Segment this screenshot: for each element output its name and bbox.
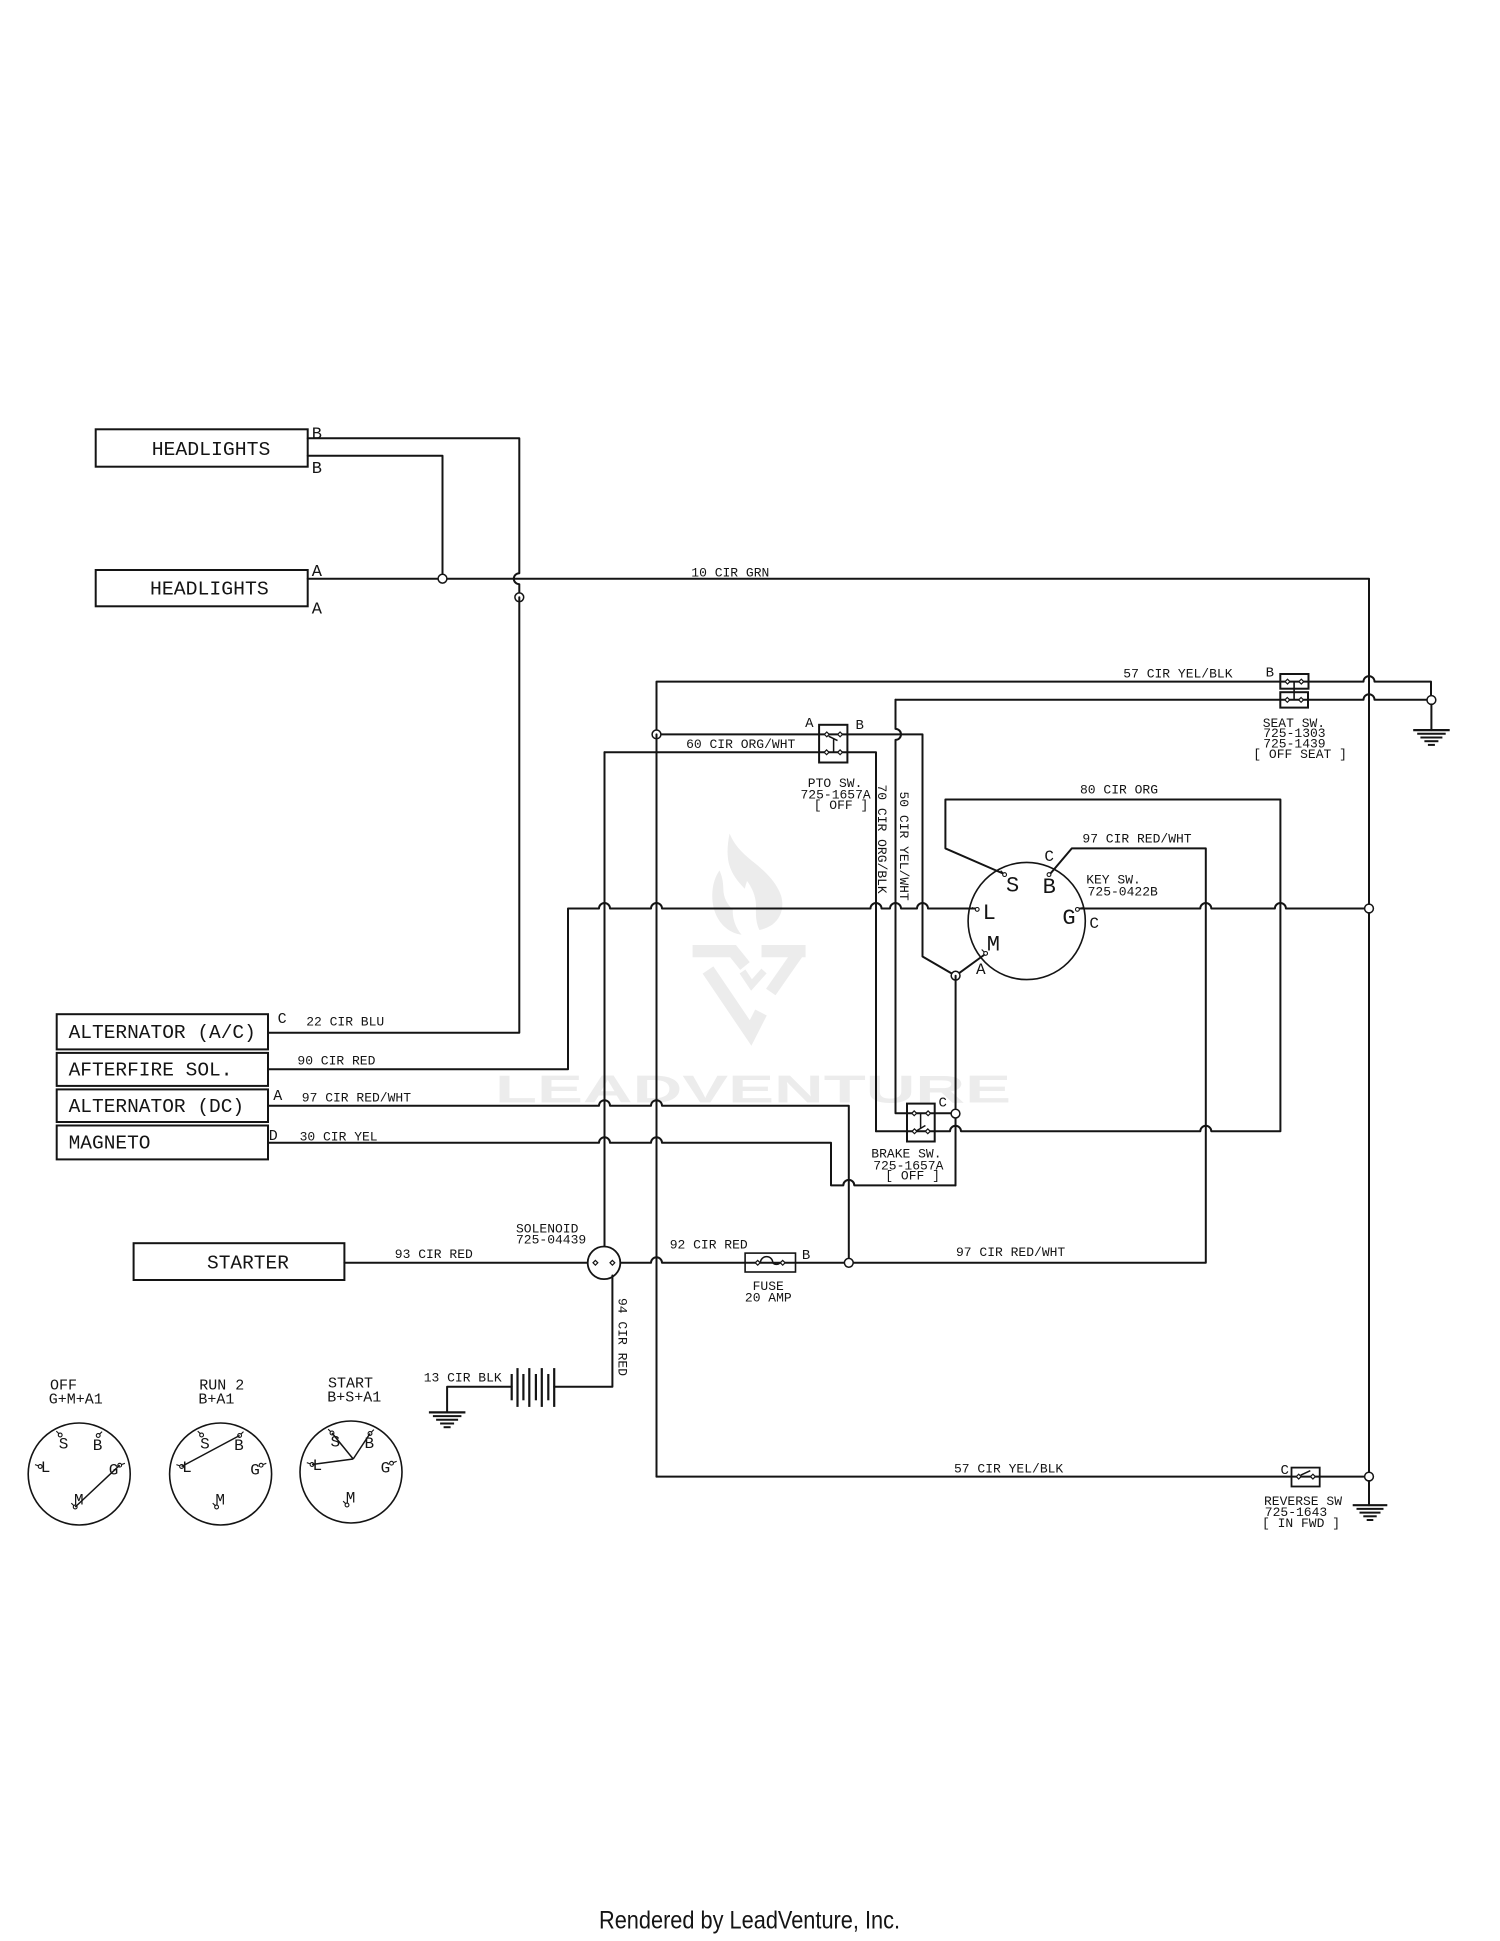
key switch label xyxy=(1086,873,1158,900)
svg-text:B: B xyxy=(312,460,322,479)
svg-text:[ OFF ]: [ OFF ] xyxy=(814,798,869,813)
svg-text:93 CIR RED: 93 CIR RED xyxy=(395,1247,473,1262)
key position diagram START xyxy=(300,1375,402,1523)
svg-text:B: B xyxy=(802,1248,810,1264)
svg-text:MAGNETO: MAGNETO xyxy=(69,1133,151,1155)
wire main L segment + 90 CIR RED xyxy=(268,903,975,1069)
svg-text:725-0422B: 725-0422B xyxy=(1088,885,1158,900)
svg-text:ALTERNATOR (DC): ALTERNATOR (DC) xyxy=(69,1096,245,1118)
svg-text:G: G xyxy=(1062,906,1075,931)
wire 10 CIR GRN xyxy=(308,579,1369,1477)
svg-text:HEADLIGHTS: HEADLIGHTS xyxy=(152,439,271,461)
svg-text:B: B xyxy=(312,426,322,445)
svg-text:725-04439: 725-04439 xyxy=(516,1232,586,1247)
starter box xyxy=(134,1243,345,1280)
svg-text:97 CIR RED/WHT: 97 CIR RED/WHT xyxy=(302,1091,411,1106)
svg-text:C: C xyxy=(939,1096,947,1112)
key position diagram RUN 2 xyxy=(170,1377,272,1525)
wire node A to brake C xyxy=(955,976,957,1186)
wire PTO lower 70 CIR ORG/BLK xyxy=(605,752,877,1131)
svg-text:94 CIR RED: 94 CIR RED xyxy=(615,1298,630,1376)
svg-text:[ OFF SEAT ]: [ OFF SEAT ] xyxy=(1253,747,1347,762)
junction main/GRN node xyxy=(1365,904,1374,913)
PTO switch S1 xyxy=(819,725,847,763)
alternator AC box xyxy=(57,1014,268,1049)
svg-text:[ IN FWD ]: [ IN FWD ] xyxy=(1262,1516,1340,1531)
svg-text:92 CIR RED: 92 CIR RED xyxy=(670,1238,748,1253)
svg-text:20 AMP: 20 AMP xyxy=(745,1290,792,1305)
svg-text:S: S xyxy=(1006,874,1019,899)
svg-text:S: S xyxy=(200,1436,210,1454)
wire 57 CIR YEL/BLK riser xyxy=(656,734,658,1476)
wire seat ground stem xyxy=(1430,704,1432,730)
reverse switch label xyxy=(1262,1494,1342,1531)
ground (battery) xyxy=(429,1412,466,1427)
junction node A (M terminal) xyxy=(951,971,960,980)
junction node 60/57 xyxy=(652,730,661,739)
svg-text:10 CIR GRN: 10 CIR GRN xyxy=(691,566,769,581)
svg-text:97 CIR RED/WHT: 97 CIR RED/WHT xyxy=(1082,831,1191,846)
headlight box HL1 xyxy=(96,429,308,466)
junction fuse/alternator node xyxy=(844,1258,853,1267)
wire 22 CIR BLU xyxy=(268,597,519,1032)
key position diagram OFF xyxy=(28,1377,130,1525)
wire HL1 B lower drop xyxy=(308,456,443,579)
junction headlight A lower xyxy=(515,593,524,602)
ground (seat) xyxy=(1413,730,1450,745)
wire 97 CIR RED/WHT key B xyxy=(620,848,1206,1262)
wire 80 CIR ORG / brake lower xyxy=(876,800,1280,1132)
svg-text:B: B xyxy=(856,718,864,734)
solenoid label xyxy=(516,1221,586,1247)
wire HL1 B upper to node xyxy=(308,438,520,597)
svg-text:60 CIR ORG/WHT: 60 CIR ORG/WHT xyxy=(686,737,795,752)
battery BT1 xyxy=(512,1368,555,1407)
svg-text:ALTERNATOR (A/C): ALTERNATOR (A/C) xyxy=(69,1022,256,1044)
wire PTO common drop to solenoid xyxy=(604,752,606,1246)
svg-text:90 CIR RED: 90 CIR RED xyxy=(297,1054,375,1069)
svg-text:L: L xyxy=(983,901,996,926)
svg-text:S: S xyxy=(59,1436,69,1454)
svg-text:22 CIR BLU: 22 CIR BLU xyxy=(306,1015,384,1030)
junction headlight A upper xyxy=(438,574,447,583)
svg-text:13 CIR BLK: 13 CIR BLK xyxy=(424,1370,502,1385)
fuse F1 20A xyxy=(745,1253,795,1272)
svg-text:A: A xyxy=(976,961,986,979)
svg-text:B: B xyxy=(365,1435,375,1453)
svg-text:M: M xyxy=(987,932,1000,957)
svg-text:B+S+A1: B+S+A1 xyxy=(327,1389,381,1406)
key switch U1 xyxy=(968,862,1085,979)
wire reverse ground stem xyxy=(1368,1481,1370,1505)
svg-text:70 CIR ORG/BLK: 70 CIR ORG/BLK xyxy=(874,785,889,894)
svg-text:C: C xyxy=(278,1011,287,1028)
svg-text:G+M+A1: G+M+A1 xyxy=(49,1391,103,1408)
PTO switch label xyxy=(801,776,871,813)
svg-text:C: C xyxy=(1281,1463,1289,1479)
svg-text:B+A1: B+A1 xyxy=(198,1391,234,1408)
svg-text:B: B xyxy=(1043,875,1056,900)
svg-text:[ OFF ]: [ OFF ] xyxy=(885,1169,940,1184)
magneto box xyxy=(57,1126,268,1160)
svg-text:STARTER: STARTER xyxy=(207,1252,289,1274)
watermark LeadVenture logo xyxy=(495,834,1011,1112)
ground (reverse) xyxy=(1353,1505,1388,1520)
wire 57 CIR YEL/BLK seat upper xyxy=(657,676,1432,734)
reverse switch S4 xyxy=(1292,1468,1320,1487)
seat switch S2 xyxy=(1280,674,1308,708)
svg-text:G: G xyxy=(250,1462,260,1480)
wire 93 CIR RED xyxy=(344,1262,587,1264)
wire seat lower 57 xyxy=(896,694,1432,700)
wire 30 CIR YEL xyxy=(268,1137,956,1185)
wire battery negative xyxy=(447,1387,512,1413)
svg-text:Rendered by LeadVenture, Inc.: Rendered by LeadVenture, Inc. xyxy=(599,1907,900,1935)
svg-text:50 CIR YEL/WHT: 50 CIR YEL/WHT xyxy=(896,792,911,901)
wire key M to node A xyxy=(956,955,984,976)
alternator DC box xyxy=(57,1089,268,1122)
wire 57 CIR YEL/BLK bottom xyxy=(657,1476,1370,1478)
svg-text:A: A xyxy=(273,1088,282,1105)
brake switch S3 xyxy=(907,1104,935,1142)
svg-text:57 CIR YEL/BLK: 57 CIR YEL/BLK xyxy=(1123,667,1232,682)
svg-text:57 CIR YEL/BLK: 57 CIR YEL/BLK xyxy=(954,1462,1063,1477)
svg-text:G: G xyxy=(381,1460,391,1478)
svg-text:C: C xyxy=(1089,915,1099,933)
junction reverse ground node xyxy=(1365,1472,1374,1481)
svg-text:AFTERFIRE SOL.: AFTERFIRE SOL. xyxy=(69,1060,233,1082)
svg-text:B: B xyxy=(234,1437,244,1455)
svg-text:97 CIR RED/WHT: 97 CIR RED/WHT xyxy=(956,1245,1065,1260)
junction seat ground node xyxy=(1427,696,1436,705)
brake switch label xyxy=(871,1146,943,1183)
junction brake C node xyxy=(951,1109,960,1118)
svg-text:HEADLIGHTS: HEADLIGHTS xyxy=(150,579,269,601)
seat switch label xyxy=(1253,716,1347,762)
headlight box HL2 xyxy=(96,570,308,606)
svg-text:B: B xyxy=(1266,665,1274,681)
wire 50 CIR YEL/WHT xyxy=(896,700,956,1114)
fuse label xyxy=(745,1279,792,1306)
svg-text:A: A xyxy=(805,716,814,732)
svg-text:A: A xyxy=(312,601,323,620)
svg-text:B: B xyxy=(93,1437,103,1455)
wire 97 CIR RED/WHT alternator xyxy=(268,1100,849,1263)
afterfire box xyxy=(57,1053,268,1086)
wire 60 CIR ORG/WHT + PTO B drop xyxy=(657,734,956,975)
svg-text:30 CIR YEL: 30 CIR YEL xyxy=(300,1130,378,1145)
svg-text:80 CIR ORG: 80 CIR ORG xyxy=(1080,783,1158,798)
svg-text:C: C xyxy=(1044,848,1054,866)
wire main G segment xyxy=(1080,903,1369,909)
solenoid K1 xyxy=(588,1247,621,1280)
wire 94 CIR RED xyxy=(554,1276,612,1387)
